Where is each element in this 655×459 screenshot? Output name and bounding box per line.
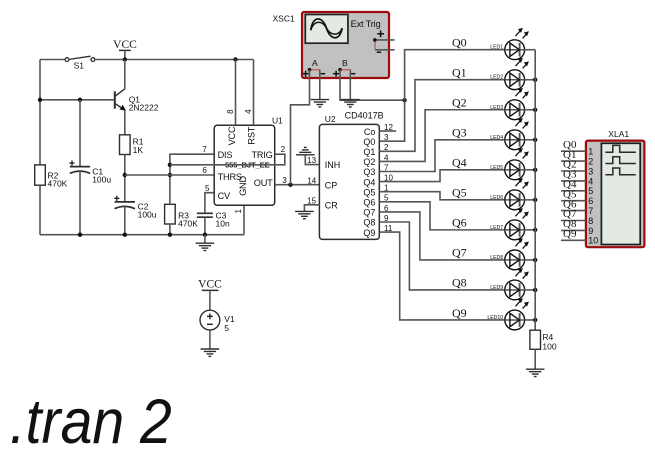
pin number 4 (Q2) — [384, 153, 389, 162]
svg-text:3: 3 — [588, 166, 593, 176]
pin 15 CR ground — [295, 196, 319, 218]
svg-text:Q7: Q7 — [452, 246, 467, 260]
svg-text:7: 7 — [384, 163, 389, 172]
resistor R1 — [120, 135, 144, 155]
svg-text:2: 2 — [588, 157, 593, 167]
node VCC rail junction — [123, 57, 127, 61]
svg-text:LED9: LED9 — [490, 285, 503, 291]
ground (V1) — [201, 349, 220, 356]
wire Q6 net — [379, 202, 505, 230]
svg-text:VCC: VCC — [113, 39, 137, 51]
svg-text:LED8: LED8 — [490, 255, 503, 261]
svg-text:Q5: Q5 — [363, 187, 375, 197]
wire scope A- to ground — [319, 70, 321, 100]
node bus row 10 — [533, 318, 537, 322]
wire XLA1 input Q4 — [561, 179, 586, 191]
svg-text:2: 2 — [281, 145, 286, 154]
wire LED1 to bus — [525, 49, 536, 51]
LED LED4 — [490, 118, 529, 150]
pin number 1 (Q5) — [384, 184, 389, 193]
logic analyzer XLA1 body — [586, 141, 645, 248]
svg-text:Ext Trig: Ext Trig — [351, 19, 381, 29]
svg-text:15: 15 — [307, 196, 316, 205]
wire Q1 collector — [124, 60, 126, 90]
svg-text:Q0: Q0 — [452, 36, 467, 50]
counter CD4017B U2 body — [319, 111, 383, 240]
net label Q5 — [452, 186, 467, 200]
svg-text:LED7: LED7 — [490, 225, 503, 231]
wire LED8 to bus — [525, 259, 536, 261]
node rail C2 — [123, 233, 127, 237]
wire Q1 emitter to R1 — [124, 110, 126, 135]
oscilloscope XSC1 body — [302, 12, 389, 78]
wire OUT to CP — [275, 184, 320, 186]
svg-text:CD4017B: CD4017B — [345, 111, 384, 121]
wire THRS — [125, 174, 216, 176]
ground (scope A) — [311, 100, 330, 107]
svg-text:2: 2 — [384, 143, 389, 152]
svg-text:11: 11 — [384, 224, 393, 233]
svg-text:10: 10 — [384, 174, 393, 183]
LED LED1 — [490, 28, 529, 60]
svg-text:VCC: VCC — [227, 126, 237, 145]
node OUT junction — [288, 183, 292, 187]
svg-text:100u: 100u — [138, 210, 157, 220]
net label Q7 — [452, 246, 467, 260]
wire LED10 to bus — [525, 319, 536, 321]
svg-text:Q4: Q4 — [452, 156, 467, 170]
node THRS-R3 junction — [168, 173, 172, 177]
svg-text:Q5: Q5 — [452, 186, 467, 200]
svg-text:7: 7 — [588, 206, 593, 216]
wire LED9 to bus — [525, 289, 536, 291]
svg-text:4: 4 — [384, 153, 389, 162]
wire TRIG loop — [170, 154, 285, 165]
svg-text:.tran 2: .tran 2 — [10, 387, 172, 457]
svg-text:Q9: Q9 — [452, 306, 467, 320]
oscilloscope screen — [305, 15, 348, 44]
capacitor C3 — [197, 193, 230, 235]
node bus row 3 — [533, 108, 537, 112]
source V1 — [200, 310, 235, 333]
LED LED9 — [490, 268, 529, 300]
trigger terminal — [373, 30, 395, 52]
svg-text:Q8: Q8 — [452, 276, 467, 290]
svg-text:A: A — [312, 58, 318, 68]
wire XLA1 input Q7 — [561, 208, 586, 220]
node bus row 8 — [533, 258, 537, 262]
svg-text:Q8: Q8 — [363, 218, 375, 228]
pin number 3 — [282, 176, 287, 185]
svg-text:3: 3 — [384, 133, 389, 142]
svg-text:13: 13 — [307, 156, 316, 165]
svg-text:XSC1: XSC1 — [273, 13, 295, 23]
LED LED8 — [490, 238, 529, 270]
pin 13 INH pull-up — [296, 147, 319, 165]
svg-text:Q4: Q4 — [363, 177, 375, 187]
pin number 1 — [234, 208, 243, 213]
svg-text:4: 4 — [244, 109, 253, 114]
wire 555 pin4 — [253, 60, 255, 126]
wire LED bus — [534, 50, 536, 331]
node bus row 9 — [533, 288, 537, 292]
svg-text:CV: CV — [218, 191, 231, 201]
pin number 6 (Q7) — [384, 204, 389, 213]
svg-text:RST: RST — [246, 126, 256, 144]
pin number 5 — [205, 184, 210, 193]
switch S1 — [65, 56, 95, 70]
wire LED7 to bus — [525, 229, 536, 231]
svg-text:100u: 100u — [92, 175, 111, 185]
wire base rail — [40, 99, 114, 101]
wire left rail — [39, 60, 41, 235]
power net label VCC (V1) — [198, 279, 222, 311]
wire bottom rail — [40, 234, 244, 236]
wire top rail right — [95, 59, 254, 61]
wire scope A+ to OUT — [291, 70, 310, 185]
capacitor C2 — [114, 196, 157, 235]
svg-text:Q6: Q6 — [363, 198, 375, 208]
svg-text:U2: U2 — [325, 114, 336, 124]
LED LED5 — [490, 148, 529, 180]
svg-text:OUT: OUT — [254, 178, 273, 188]
logic analyzer waveforms — [605, 145, 635, 174]
svg-text:10n: 10n — [216, 219, 230, 229]
capacitor C1 — [69, 100, 111, 235]
node bus row 5 — [533, 168, 537, 172]
node bus row 6 — [533, 198, 537, 202]
svg-text:Q3: Q3 — [452, 126, 467, 140]
wire R1 to C2 — [124, 155, 126, 202]
pin number 3 (Q0) — [384, 133, 389, 142]
svg-text:Q9: Q9 — [563, 228, 577, 240]
wire XLA1 input Q9 — [561, 228, 586, 240]
channel A terminal — [303, 58, 326, 77]
label Ext Trig — [351, 19, 381, 29]
pin number 5 (Q6) — [384, 194, 389, 203]
wire 555 pin8 — [235, 60, 237, 126]
pin number 2 (Q1) — [384, 143, 389, 152]
wire LED6 to bus — [525, 199, 536, 201]
svg-text:6: 6 — [384, 204, 389, 213]
svg-text:5: 5 — [224, 323, 229, 333]
node left rail tee — [38, 98, 42, 102]
wire V1 to ground — [209, 330, 211, 349]
svg-text:9: 9 — [588, 226, 593, 236]
resistor R3 — [165, 204, 199, 228]
svg-text:LED1: LED1 — [490, 45, 503, 51]
resistor R2 — [35, 165, 68, 189]
net label Q9 — [452, 306, 467, 320]
svg-text:100: 100 — [542, 341, 556, 351]
svg-text:4: 4 — [588, 176, 593, 186]
instrument label XLA1 — [608, 129, 629, 139]
pin number 8 — [226, 109, 235, 114]
net label Q0 — [452, 36, 467, 50]
svg-text:LED4: LED4 — [490, 135, 503, 141]
svg-text:Q6: Q6 — [452, 216, 467, 230]
node bus row 7 — [533, 228, 537, 232]
svg-text:DIS: DIS — [218, 150, 233, 160]
pin number 14 — [307, 176, 316, 185]
channel B terminal — [333, 58, 355, 77]
svg-text:1: 1 — [588, 147, 593, 157]
analysis directive .tran 2 — [10, 387, 172, 457]
wire Q1 net — [379, 80, 505, 152]
svg-text:5: 5 — [205, 184, 210, 193]
node B+ Q0 junction — [402, 98, 406, 102]
wire Q2 net — [379, 110, 505, 162]
LED LED10 — [487, 298, 529, 330]
LED LED3 — [490, 88, 529, 120]
wire scope B+ to Q0 — [340, 70, 405, 101]
svg-text:1: 1 — [384, 184, 389, 193]
svg-text:2N2222: 2N2222 — [129, 103, 159, 113]
node bus row 4 — [533, 138, 537, 142]
svg-text:CP: CP — [325, 180, 338, 190]
wire XLA1 input Q0 — [561, 139, 586, 151]
resistor R4 — [530, 330, 557, 351]
svg-text:14: 14 — [307, 176, 316, 185]
pin number 4 — [244, 109, 253, 114]
svg-text:Q7: Q7 — [363, 208, 375, 218]
wire LED5 to bus — [525, 169, 536, 171]
svg-text:LED5: LED5 — [490, 165, 503, 171]
node bus row 2 — [533, 78, 537, 82]
svg-text:9: 9 — [384, 214, 389, 223]
svg-text:S1: S1 — [74, 61, 85, 71]
svg-text:Q2: Q2 — [363, 157, 375, 167]
wire DIS down to R3 — [170, 154, 216, 204]
pin number 11 (Q9) — [384, 224, 393, 233]
net label Q2 — [452, 96, 467, 110]
node DIS-TRIG junction — [168, 163, 172, 167]
wire Q7 net — [379, 212, 505, 260]
wire scope B- to ground — [349, 70, 351, 100]
pin number 7 — [202, 145, 207, 154]
svg-text:Q0: Q0 — [363, 137, 375, 147]
node THRS tee — [123, 173, 127, 177]
svg-text:470K: 470K — [178, 219, 198, 229]
power net label VCC (top) — [113, 39, 137, 60]
svg-text:6: 6 — [202, 166, 207, 175]
net label Q8 — [452, 276, 467, 290]
svg-text:8: 8 — [588, 216, 593, 226]
wire XLA1 input Q3 — [561, 169, 586, 181]
instrument label XSC1 — [273, 13, 295, 23]
node rail R3 — [168, 233, 172, 237]
wire Q3 net — [379, 140, 505, 172]
svg-text:LED6: LED6 — [490, 195, 503, 201]
svg-text:8: 8 — [226, 109, 235, 114]
svg-text:Q1: Q1 — [452, 66, 467, 80]
svg-text:Q2: Q2 — [452, 96, 467, 110]
node rail gnd — [203, 233, 207, 237]
svg-text:CR: CR — [325, 200, 338, 210]
wire Q8 net — [379, 222, 505, 290]
ground (bottom rail) — [196, 235, 215, 251]
svg-text:VCC: VCC — [198, 279, 222, 291]
net label Q6 — [452, 216, 467, 230]
pin number 2 — [281, 145, 286, 154]
wire R4 to ground — [534, 349, 536, 369]
counter right pin names — [363, 127, 375, 238]
LED LED6 — [490, 178, 529, 210]
wire LED4 to bus — [525, 139, 536, 141]
op-amp 555 timer U1 body — [214, 116, 283, 206]
svg-text:LED10: LED10 — [487, 315, 503, 321]
svg-text:B: B — [342, 58, 348, 68]
pin number 12 stub (Co) — [379, 123, 396, 132]
svg-text:XLA1: XLA1 — [608, 129, 629, 139]
svg-text:U1: U1 — [272, 116, 283, 126]
LED LED7 — [490, 208, 529, 240]
svg-text:7: 7 — [202, 145, 207, 154]
wire Q9 net — [379, 232, 505, 320]
wire XLA1 input Q1 — [561, 149, 586, 161]
wire 555 GND pin drop — [243, 205, 245, 234]
svg-text:1: 1 — [234, 208, 243, 213]
wire LED3 to bus — [525, 109, 536, 111]
svg-text:470K: 470K — [48, 179, 68, 189]
pin number 7 (Q3) — [384, 163, 389, 172]
svg-text:THRS: THRS — [218, 172, 242, 182]
svg-text:5: 5 — [588, 186, 593, 196]
svg-text:Q1: Q1 — [363, 147, 375, 157]
ground (R4) — [526, 369, 545, 376]
svg-text:5: 5 — [384, 194, 389, 203]
wire XLA1 input Q2 — [561, 159, 586, 171]
pin number 6 — [202, 166, 207, 175]
value label 555_BJT_EE — [225, 160, 270, 169]
pin number 9 (Q8) — [384, 214, 389, 223]
svg-text:Q9: Q9 — [363, 228, 375, 238]
wire top rail left — [40, 59, 65, 61]
net label Q4 — [452, 156, 467, 170]
svg-text:LED3: LED3 — [490, 105, 503, 111]
svg-text:1K: 1K — [133, 145, 144, 155]
wire XLA1 input Q8 — [561, 218, 586, 230]
ground (scope B) — [341, 100, 360, 107]
svg-text:6: 6 — [588, 196, 593, 206]
wire Q0 net — [379, 50, 505, 142]
svg-text:TRIG: TRIG — [251, 150, 272, 160]
svg-text:INH: INH — [325, 160, 341, 170]
LED LED2 — [490, 58, 529, 90]
wire XLA1 input Q5 — [561, 188, 586, 200]
pin number 10 (Q4) — [384, 174, 393, 183]
svg-text:12: 12 — [384, 123, 393, 132]
svg-text:10: 10 — [588, 236, 598, 246]
svg-text:Q3: Q3 — [363, 167, 375, 177]
wire R3 to rail — [169, 224, 171, 235]
wire Q5 net — [379, 192, 505, 200]
net label Q3 — [452, 126, 467, 140]
svg-text:Co: Co — [364, 127, 376, 137]
wire Q4 net — [379, 170, 505, 182]
transistor Q1 — [115, 89, 159, 113]
node pin8 branch junction — [233, 57, 237, 61]
node rail C1 — [78, 233, 82, 237]
wire LED2 to bus — [525, 79, 536, 81]
net label Q1 — [452, 66, 467, 80]
wire XLA1 input Q6 — [561, 198, 586, 210]
node C1 branch tee — [78, 98, 82, 102]
logic analyzer pin numbers — [588, 147, 598, 246]
svg-text:LED2: LED2 — [490, 75, 503, 81]
svg-text:3: 3 — [282, 176, 287, 185]
